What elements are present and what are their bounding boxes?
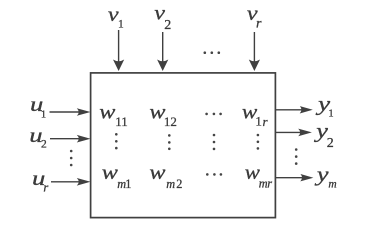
wire v1 arrow [113, 30, 124, 71]
dots vdots col3 [213, 134, 216, 151]
svg-text:2: 2 [41, 139, 47, 151]
dots between u2 and ur [70, 150, 73, 167]
wire v2 arrow [157, 32, 168, 71]
wire u1 arrow [50, 108, 91, 116]
svg-text:1: 1 [328, 108, 333, 119]
svg-text:w: w [149, 160, 165, 183]
label v1 [108, 2, 120, 25]
svg-text:2: 2 [327, 136, 334, 151]
dots between v2 and vr [204, 51, 221, 54]
svg-text:r: r [256, 17, 262, 32]
matrix entry w11 [99, 100, 115, 123]
label u1 [30, 94, 43, 117]
wire vr arrow [249, 32, 260, 71]
label y2 [314, 120, 328, 143]
svg-text:1: 1 [41, 109, 46, 120]
matrix entry w12 [149, 100, 165, 123]
svg-text:r: r [43, 181, 48, 195]
dots vdots col1 [115, 133, 118, 149]
svg-text:y: y [315, 163, 329, 186]
wire u2 arrow [50, 135, 91, 143]
dots row1 cdots [205, 113, 222, 116]
wire ym arrow [275, 174, 313, 181]
dots row2 cdots [206, 173, 222, 176]
dots vdots col2 [168, 134, 171, 150]
svg-text:1: 1 [125, 177, 131, 191]
svg-text:m: m [328, 178, 336, 190]
matrix entry wm1 [102, 160, 118, 183]
matrix entry wmr [245, 161, 261, 184]
label y1 [315, 93, 331, 116]
svg-text:r: r [263, 114, 269, 129]
svg-text:1: 1 [118, 19, 124, 31]
dots between y2 and ym [295, 148, 298, 165]
svg-text:w: w [102, 160, 118, 183]
matrix entry w1r [242, 99, 258, 123]
svg-text:w: w [99, 100, 115, 123]
label ym [315, 163, 329, 186]
label u2 [29, 124, 42, 147]
svg-text:r: r [267, 177, 272, 191]
dots vdots col4 [257, 134, 260, 150]
svg-text:12: 12 [164, 114, 177, 129]
svg-text:11: 11 [115, 114, 128, 129]
svg-text:m: m [166, 177, 175, 191]
label ur [32, 167, 45, 190]
wire y1 arrow [275, 106, 312, 113]
wire y2 arrow [275, 129, 312, 137]
label v2 [154, 1, 166, 24]
svg-text:2: 2 [164, 18, 171, 33]
matrix entry wm2 [149, 160, 165, 183]
svg-text:2: 2 [176, 177, 182, 191]
svg-text:1: 1 [255, 114, 262, 129]
wire ur arrow [51, 178, 91, 186]
label vr [247, 1, 259, 24]
box W [91, 73, 276, 218]
